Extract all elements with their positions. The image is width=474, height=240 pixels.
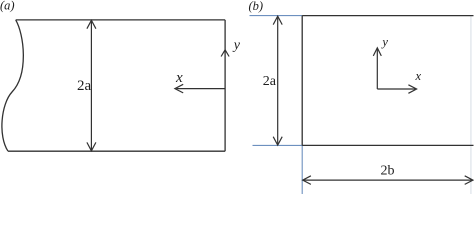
svg-text:y: y bbox=[232, 38, 241, 53]
svg-text:x: x bbox=[415, 69, 422, 83]
svg-text:(b): (b) bbox=[249, 0, 264, 13]
svg-text:(a): (a) bbox=[0, 0, 15, 13]
svg-text:2a: 2a bbox=[77, 78, 92, 94]
svg-text:2b: 2b bbox=[381, 163, 395, 178]
svg-text:x: x bbox=[175, 70, 183, 86]
svg-text:2a: 2a bbox=[263, 74, 277, 89]
svg-text:y: y bbox=[380, 35, 388, 49]
